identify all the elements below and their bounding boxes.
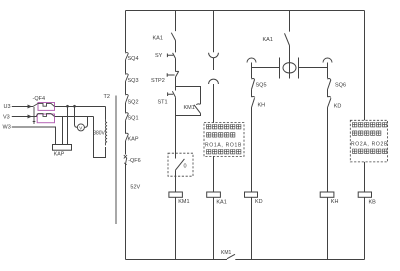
svg-text:T2: T2 (104, 94, 110, 100)
svg-text:380V: 380V (93, 131, 105, 137)
svg-text:KD: KD (255, 199, 263, 205)
svg-text:KM1: KM1 (178, 199, 189, 205)
svg-text:SQ3: SQ3 (128, 78, 139, 84)
svg-text:KA1: KA1 (153, 36, 163, 42)
svg-text:RO1A, RO1B: RO1A, RO1B (205, 143, 242, 149)
svg-text:SQ1: SQ1 (128, 115, 139, 121)
svg-text:KAP: KAP (128, 137, 139, 143)
svg-text:KM1: KM1 (184, 105, 195, 111)
svg-text:STP2: STP2 (151, 78, 165, 84)
svg-text:KA1: KA1 (263, 37, 273, 43)
svg-text:KH: KH (331, 199, 339, 205)
svg-text:SQ4: SQ4 (128, 56, 139, 62)
svg-text:KA1: KA1 (216, 199, 226, 205)
svg-text:SY: SY (155, 53, 163, 59)
svg-text:W3: W3 (3, 125, 11, 131)
svg-text:SQ2: SQ2 (128, 99, 139, 105)
svg-text:SQ5: SQ5 (256, 83, 267, 89)
svg-text:V3: V3 (3, 115, 10, 121)
svg-text:-QF6: -QF6 (128, 158, 141, 164)
svg-text:KD: KD (334, 104, 342, 110)
svg-text:KAP: KAP (54, 152, 65, 158)
svg-text:KB: KB (369, 200, 377, 206)
svg-text:KM1: KM1 (221, 250, 232, 256)
svg-text:ST1: ST1 (158, 99, 168, 105)
svg-text:U3: U3 (4, 104, 11, 110)
svg-text:KH: KH (258, 102, 266, 108)
svg-text:-QF4: -QF4 (33, 96, 46, 102)
svg-text:RO2A, RO2B: RO2A, RO2B (351, 142, 388, 148)
svg-text:0: 0 (184, 164, 187, 170)
svg-text:SQ6: SQ6 (335, 83, 346, 89)
svg-text:V: V (79, 125, 82, 130)
svg-text:52V: 52V (130, 185, 140, 191)
